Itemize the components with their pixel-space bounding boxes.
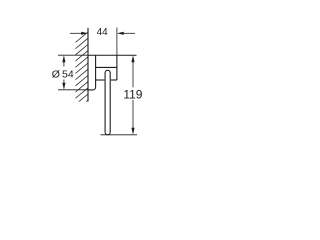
rod bottom cap <box>105 132 110 135</box>
wall surface line <box>87 28 89 102</box>
svg-text:119: 119 <box>123 87 142 101</box>
bottom extension line <box>100 134 137 136</box>
hanger rod <box>105 70 110 132</box>
svg-text:44: 44 <box>97 27 109 38</box>
top reference line y55 (fixture top + extension for 119 and diameter 54) <box>58 54 88 56</box>
dimension 44 right extension line <box>116 28 118 56</box>
housing top edge <box>96 66 117 68</box>
svg-text:Ø 54: Ø 54 <box>52 68 74 80</box>
rosette front edge <box>88 55 96 90</box>
housing front edge <box>116 55 118 80</box>
dimension 119 line <box>131 55 134 134</box>
housing bottom edge <box>96 79 105 81</box>
wall hatching <box>73 32 88 113</box>
dimension 44 right arrow <box>117 32 135 35</box>
diameter 54 dimension line <box>62 55 65 89</box>
diameter 54 bottom extension line <box>58 89 88 91</box>
dimension 44 left arrow <box>70 32 88 35</box>
